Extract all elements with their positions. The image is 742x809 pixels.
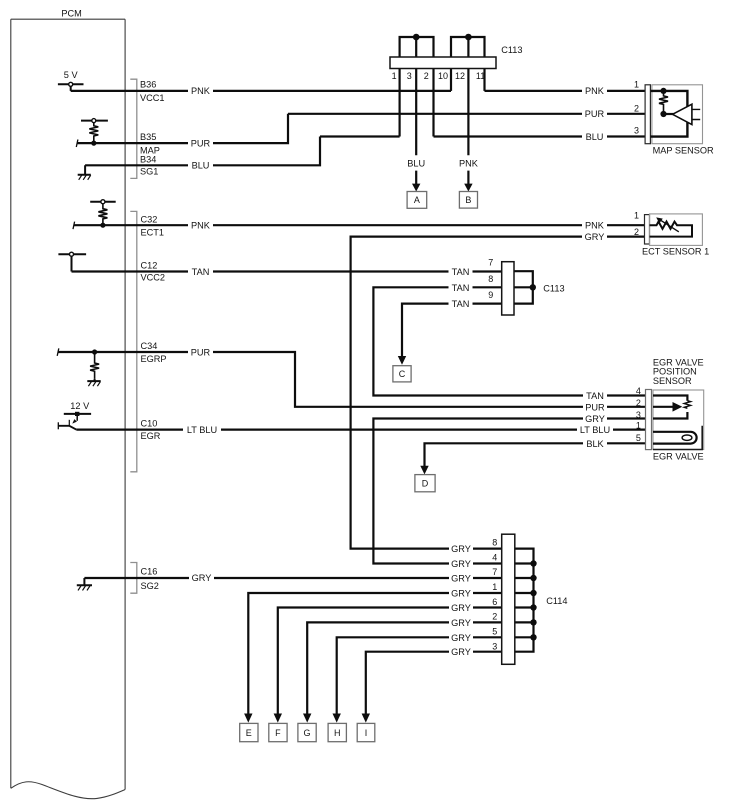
EGR pot internal loop (653, 396, 687, 419)
5V supply symbol at B36 (58, 82, 84, 91)
wire C16 GRY to C114 pin 7 (84, 577, 501, 579)
svg-text:TAN: TAN (192, 267, 210, 277)
C114 bridge wires (514, 549, 534, 652)
svg-text:D: D (422, 479, 429, 489)
svg-text:PNK: PNK (459, 159, 479, 169)
pull-down resistor and ground at C34 (87, 352, 100, 386)
wire label TAN row7 (449, 266, 473, 277)
wire GRY C114 pin 6 to F (278, 608, 502, 714)
wire label LT BLU C10 (183, 424, 221, 435)
svg-text:4: 4 (492, 552, 497, 562)
svg-text:PUR: PUR (585, 402, 605, 412)
svg-text:C114: C114 (546, 596, 567, 606)
wire label GRY ECT right (582, 232, 607, 243)
connector C114 body (502, 534, 515, 664)
wire label PUR right MAP pin2 (582, 109, 607, 120)
svg-text:C10: C10 (141, 418, 158, 428)
svg-text:PNK: PNK (585, 221, 605, 231)
5V supply symbol at C12 (58, 252, 86, 271)
EGR valve coil ellipse (682, 435, 692, 440)
wire label TAN row9 (449, 299, 473, 310)
arrowhead to B (464, 184, 472, 192)
wire label GRY row5 (449, 632, 473, 643)
C113 (2) bridge wires (514, 271, 533, 303)
wire PUR row to MAP pin 2 (288, 113, 645, 115)
wire label PUR left B35 (188, 138, 213, 149)
svg-text:ECT1: ECT1 (141, 227, 165, 237)
PCM module box (11, 19, 125, 799)
wire label TAN EGR pin4 (583, 391, 607, 402)
wire C32 PNK to ECT pin 1 (74, 224, 646, 226)
svg-text:ECT SENSOR 1: ECT SENSOR 1 (642, 246, 709, 256)
MAP amp triangle (673, 104, 692, 124)
svg-text:GRY: GRY (192, 573, 212, 583)
svg-text:C32: C32 (141, 214, 158, 224)
svg-text:GRY: GRY (451, 647, 471, 657)
svg-text:B35: B35 (140, 132, 156, 142)
svg-text:PUR: PUR (191, 347, 211, 357)
svg-text:SG2: SG2 (141, 581, 159, 591)
EGR valve lower box edge (653, 426, 702, 450)
svg-text:8: 8 (488, 274, 493, 284)
svg-text:6: 6 (492, 597, 497, 607)
node G box (298, 723, 316, 741)
wire label GRY row7 (449, 573, 473, 584)
MAP internal wire to amp (664, 113, 674, 115)
junction dot MAP pin2 (660, 111, 666, 117)
wire label BLK EGR pin5 (583, 438, 607, 449)
svg-text:SENSOR: SENSOR (653, 376, 692, 386)
node I box (357, 723, 375, 741)
svg-text:G: G (303, 728, 310, 738)
svg-text:PNK: PNK (191, 86, 211, 96)
wire PNK row C113 pin11 to MAP pin 1 (485, 90, 646, 92)
wire label TAN C12 (188, 266, 213, 277)
junction dot C114 pin4 (530, 560, 536, 566)
arrowhead to E (244, 714, 252, 723)
bracket C16 terminal group (130, 563, 137, 594)
wire BLU row to C113 pin 1 (320, 135, 400, 137)
wire C113 pin1 stub (399, 60, 401, 137)
EGR position sensor box (653, 390, 704, 450)
arrowhead to F (274, 714, 282, 723)
junction dot C114 pin5 (530, 634, 536, 640)
svg-text:EGR VALVE: EGR VALVE (653, 451, 704, 461)
node A box (407, 192, 427, 209)
wire C113 pin11 stub to PNK row (483, 60, 485, 91)
wire C113 pin2 stub (432, 60, 434, 137)
svg-text:BLU: BLU (192, 161, 210, 171)
svg-text:5 V: 5 V (64, 70, 79, 80)
svg-text:F: F (275, 728, 281, 738)
wire label GRY row8 (449, 544, 473, 555)
wire TAN C113 pin 9 to C (402, 304, 502, 357)
junction dot C32 (100, 223, 105, 228)
MAP amp taps (692, 109, 700, 119)
svg-text:5: 5 (636, 433, 641, 443)
svg-text:B: B (465, 195, 471, 205)
svg-text:1: 1 (492, 582, 497, 592)
svg-text:BLK: BLK (586, 439, 604, 449)
svg-text:9: 9 (488, 290, 493, 300)
svg-text:B34: B34 (140, 154, 156, 164)
svg-text:MAP SENSOR: MAP SENSOR (653, 145, 714, 155)
wire label GRY row6 (449, 603, 473, 614)
svg-text:C113: C113 (501, 45, 522, 55)
svg-text:GRY: GRY (585, 232, 605, 242)
svg-text:7: 7 (488, 258, 493, 268)
wire C10 LT BLU to EGR sensor pin 1 (76, 429, 646, 431)
svg-text:12 V: 12 V (70, 401, 90, 411)
node C box (393, 366, 411, 382)
wire B35 PUR (PCM run) (77, 114, 288, 143)
svg-text:GRY: GRY (451, 544, 471, 554)
junction dot staple pin12 (465, 34, 472, 41)
svg-text:PNK: PNK (585, 86, 605, 96)
wire end tick C34 (57, 348, 59, 356)
ECT sensor box (650, 214, 703, 246)
wire C113 pin12 drop to B (467, 37, 469, 184)
svg-text:C113: C113 (543, 283, 564, 293)
svg-text:LT BLU: LT BLU (580, 425, 610, 435)
svg-text:7: 7 (492, 567, 497, 577)
arrowhead to C (398, 356, 406, 365)
arrowhead to D (420, 466, 428, 475)
node F box (269, 723, 287, 741)
C113 bridge staple pins 10-11 (451, 37, 485, 58)
wire GRY EGR sensor pin 3 to C114 pin 4 (373, 419, 645, 564)
arrowhead to H (333, 714, 341, 723)
wire label GRY row1 (449, 588, 473, 599)
svg-text:EGRP: EGRP (141, 354, 167, 364)
wire GRY ECT pin 2 (351, 237, 645, 549)
wire label BLU right MAP pin3 (582, 131, 607, 142)
svg-text:A: A (414, 195, 420, 205)
svg-text:GRY: GRY (451, 574, 471, 584)
svg-text:I: I (365, 728, 368, 738)
svg-text:1: 1 (634, 211, 639, 221)
junction dot C113(2) pin 8 (530, 284, 536, 290)
svg-text:3: 3 (634, 126, 639, 136)
bracket C32-C10 terminal group (130, 211, 137, 471)
svg-text:GRY: GRY (451, 618, 471, 628)
junction dot C114 pin7 (530, 575, 536, 581)
wire label PNK ECT right (582, 220, 607, 231)
pull-up resistor symbol at B35 (81, 119, 108, 144)
MAP sensor box (652, 85, 703, 144)
svg-text:5: 5 (492, 627, 497, 637)
wire B36 PNK (PCM to C113 pin 10) (71, 90, 451, 92)
svg-text:SG1: SG1 (140, 166, 158, 176)
wire GRY C114 pin 3 to I (366, 652, 502, 714)
svg-text:PCM: PCM (61, 8, 81, 18)
svg-text:BLU: BLU (586, 132, 604, 142)
MAP sensor internal loop (650, 91, 687, 137)
connector C113 (2) body (502, 262, 514, 315)
EGR pot resistor (684, 401, 690, 409)
svg-text:2: 2 (424, 71, 429, 81)
svg-text:TAN: TAN (452, 299, 470, 309)
svg-text:BLU: BLU (407, 159, 425, 169)
MAP sensor connector bar (645, 85, 650, 144)
svg-text:12: 12 (455, 71, 465, 81)
svg-text:PUR: PUR (585, 109, 605, 119)
ECT thermistor loop (650, 222, 693, 237)
wire label GRY row2 (449, 617, 473, 628)
svg-text:TAN: TAN (452, 267, 470, 277)
wire end tick B35 (76, 140, 78, 148)
EGR valve solenoid loop (653, 432, 697, 444)
node B box (459, 192, 477, 209)
wire C12 TAN to C113 pin 7 (72, 270, 502, 272)
node E box (240, 723, 258, 741)
wire label PNK right MAP pin1 (582, 86, 607, 97)
junction dot staple pin3 (413, 34, 420, 41)
arrowhead to G (303, 714, 311, 723)
svg-text:C34: C34 (141, 341, 158, 351)
svg-text:3: 3 (407, 71, 412, 81)
svg-text:4: 4 (636, 386, 641, 396)
svg-text:2: 2 (634, 104, 639, 114)
svg-text:PUR: PUR (191, 138, 211, 148)
wire GRY C114 pin 2 to G (307, 622, 502, 713)
wire end tick C32 (73, 222, 75, 230)
junction dot C34 (92, 349, 97, 354)
svg-text:2: 2 (492, 612, 497, 622)
svg-text:2: 2 (634, 227, 639, 237)
svg-text:3: 3 (636, 410, 641, 420)
svg-text:LT BLU: LT BLU (187, 425, 217, 435)
svg-text:10: 10 (438, 71, 448, 81)
svg-text:1: 1 (636, 420, 641, 430)
svg-text:GRY: GRY (451, 633, 471, 643)
wire label TAN row8 (449, 282, 473, 293)
wire C113 pin3 drop to A (415, 37, 417, 184)
wire GRY C114 pin 5 to H (337, 637, 502, 713)
svg-text:H: H (334, 728, 341, 738)
wire label PUR C34 (188, 347, 213, 358)
wire label GRY row4 (449, 559, 473, 570)
svg-text:8: 8 (492, 537, 497, 547)
pull-up resistor symbol at C32 (90, 200, 116, 226)
svg-text:B36: B36 (140, 80, 156, 90)
svg-text:GRY: GRY (585, 414, 605, 424)
wire label PUR EGR pin2 (583, 402, 607, 413)
svg-text:E: E (246, 728, 252, 738)
svg-text:1: 1 (634, 80, 639, 90)
C113 bridge staple pins 1-2 (400, 37, 434, 58)
svg-text:GRY: GRY (451, 559, 471, 569)
wire label PNK C32 (188, 220, 213, 231)
EGR sensor connector bar (646, 390, 652, 450)
svg-text:PNK: PNK (191, 221, 211, 231)
svg-text:2: 2 (636, 398, 641, 408)
junction dot C114 pin1 (530, 590, 536, 596)
ground symbol at B34 SG1 (78, 165, 91, 180)
svg-text:11: 11 (476, 71, 485, 81)
connector C113 body (390, 57, 496, 69)
wire label LT BLU EGR pin1 (577, 425, 613, 436)
arrowhead to A (412, 184, 420, 192)
svg-text:TAN: TAN (452, 283, 470, 293)
svg-text:EGR: EGR (141, 431, 161, 441)
junction dot B35 (91, 141, 96, 146)
ECT thermistor arrow (661, 220, 679, 232)
svg-text:TAN: TAN (586, 391, 604, 401)
junction dot C114 pin2 (530, 619, 536, 625)
ECT sensor connector bar (645, 215, 650, 244)
wire TAN C113 pin 8 to EGR sensor (373, 287, 645, 395)
junction dot MAP pin1 (660, 88, 666, 94)
node H box (328, 723, 346, 741)
svg-text:C16: C16 (141, 567, 158, 577)
junction dot C114 pin6 (530, 604, 536, 610)
svg-text:1: 1 (392, 71, 397, 81)
wire label GRY C16 (189, 573, 214, 584)
node D box (415, 475, 435, 492)
svg-text:VCC2: VCC2 (141, 273, 166, 283)
wire label PNK left B36 (188, 86, 213, 97)
ground symbol at C16 SG2 (77, 578, 92, 590)
wire GRY C114 pin 1 to E (248, 593, 501, 714)
wire C34 PUR to EGR sensor pin 2 (58, 352, 646, 407)
wire C113 pin10 stub (450, 60, 452, 91)
bracket B36-B34 terminal group (130, 79, 137, 178)
MAP internal resistor (659, 91, 668, 114)
wire B34 BLU (PCM to step) (85, 137, 320, 166)
wire BLK EGR valve pin 5 to D (425, 443, 646, 466)
12V supply symbol at C10 (58, 414, 91, 430)
svg-text:GRY: GRY (451, 589, 471, 599)
arrowhead to I (362, 714, 370, 723)
svg-text:3: 3 (492, 641, 497, 651)
wire label GRY EGR pin3 (583, 414, 607, 425)
EGR pot wiper arrow (653, 406, 673, 408)
wire label BLU left B34 (188, 160, 213, 171)
svg-text:C12: C12 (141, 260, 158, 270)
svg-text:VCC1: VCC1 (140, 93, 165, 103)
wire label GRY row3 (449, 647, 473, 658)
svg-text:GRY: GRY (451, 603, 471, 613)
wire BLU row C113 pin2 to MAP pin 3 (434, 135, 646, 137)
svg-text:C: C (399, 369, 406, 379)
